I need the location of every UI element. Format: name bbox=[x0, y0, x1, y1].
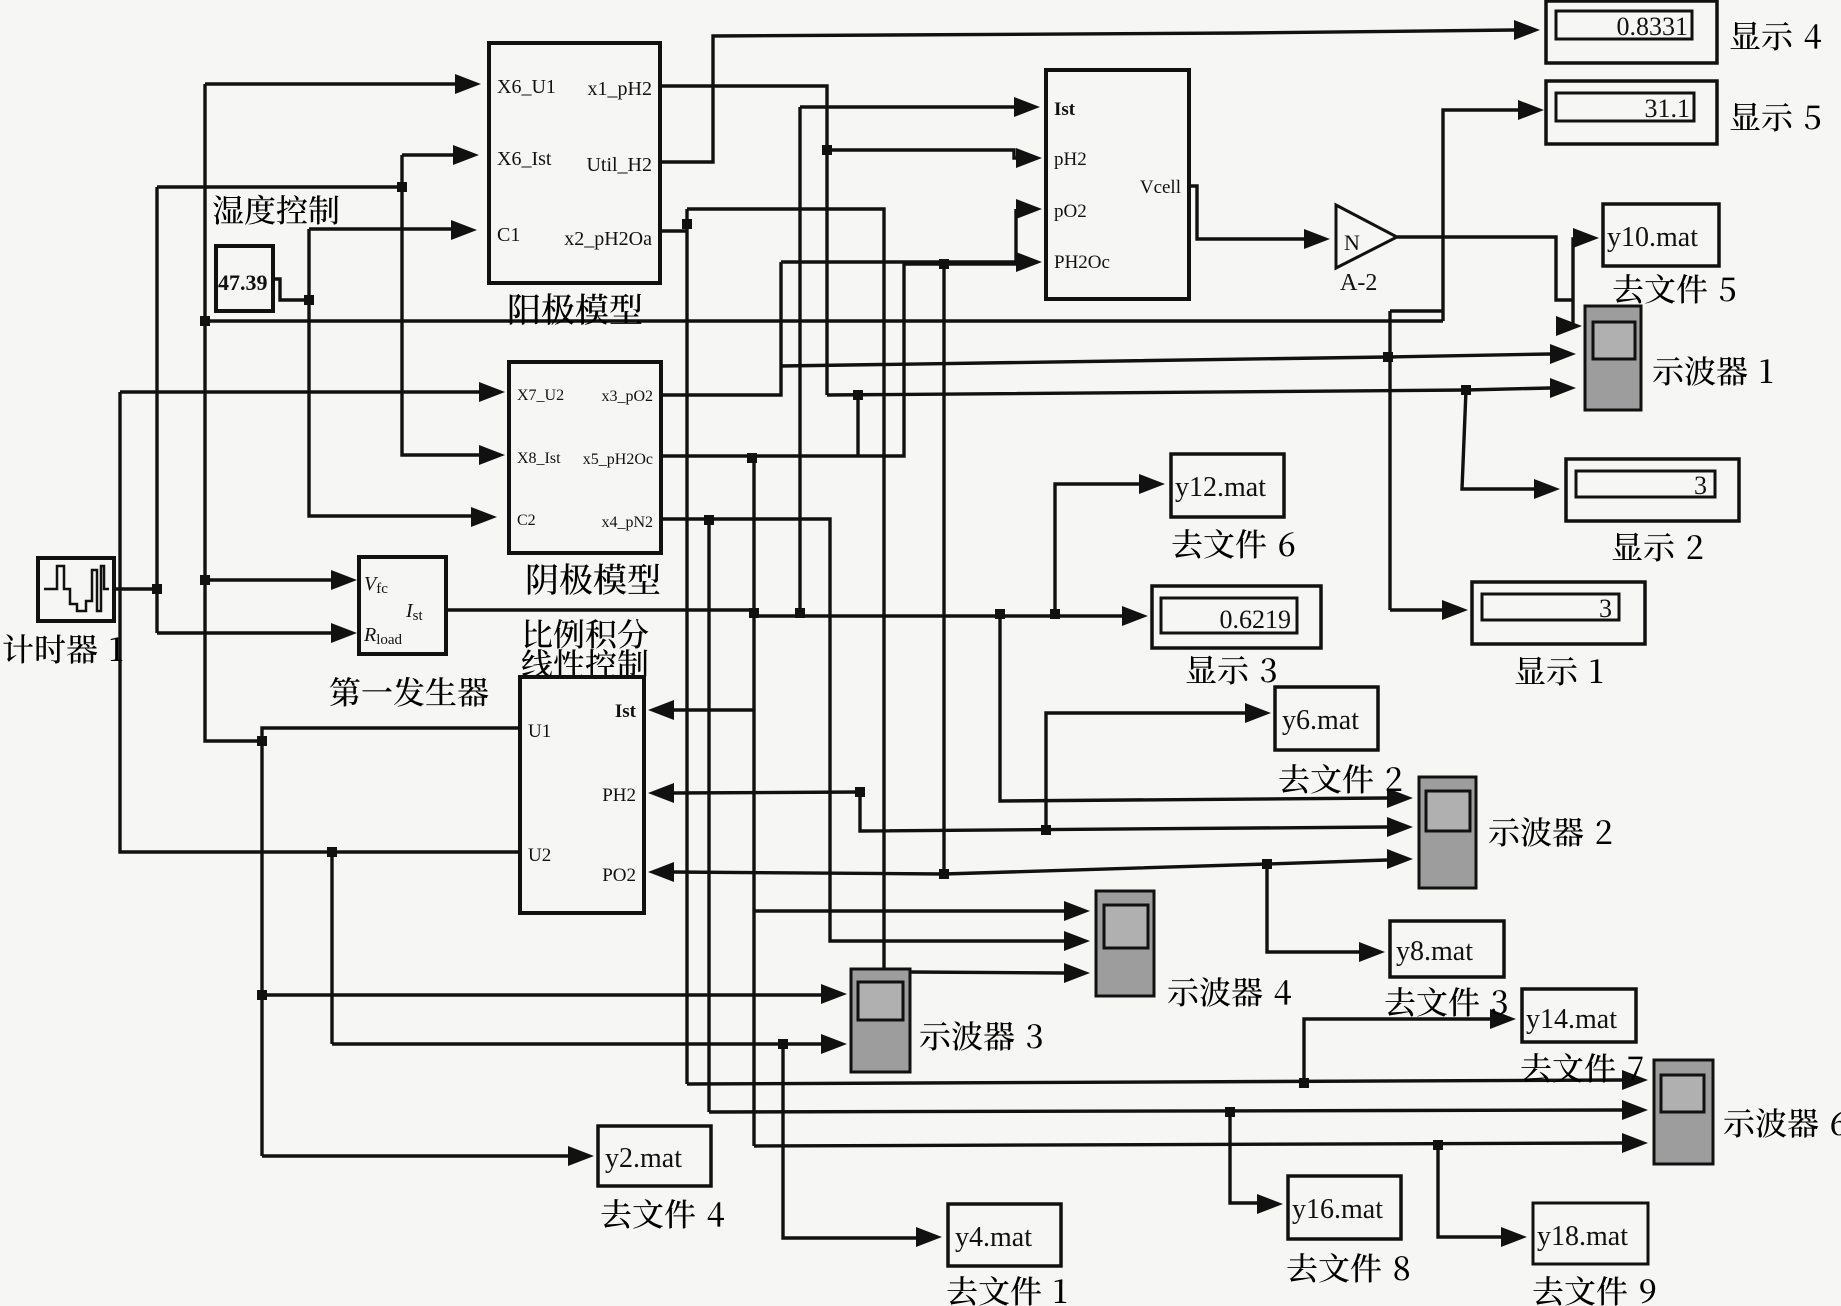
wire up to y14.mat bbox=[1304, 1019, 1490, 1083]
wire pO2 feed y=262 bbox=[781, 209, 1016, 262]
display block 显示4 bbox=[1546, 1, 1717, 63]
wire to X6_Ist input bbox=[402, 153, 453, 156]
wire net-B vertical x=205 bbox=[205, 84, 262, 741]
label scope3 bbox=[920, 1022, 950, 1051]
label to-file4 bbox=[601, 1199, 630, 1228]
wire gain output jog bbox=[1397, 237, 1573, 300]
block fuel cell stack bbox=[1046, 70, 1189, 299]
svg-text:47.39: 47.39 bbox=[218, 270, 268, 295]
wire Ist vertical x=754 bbox=[752, 456, 755, 1146]
svg-text:3: 3 bbox=[1599, 594, 1612, 623]
wire to scope2 input2 bbox=[860, 792, 1387, 831]
label humidity control bbox=[213, 195, 243, 224]
wire Util_H2 to display4 bbox=[660, 30, 1514, 162]
svg-text:y12.mat: y12.mat bbox=[1175, 472, 1266, 503]
wire to X7_U2 input bbox=[120, 390, 479, 393]
wire branch to pH2 input bbox=[827, 150, 1016, 158]
svg-text:X8_Ist: X8_Ist bbox=[517, 450, 561, 467]
svg-text:x5_pH2Oc: x5_pH2Oc bbox=[583, 451, 653, 468]
svg-text:X6_Ist: X6_Ist bbox=[497, 148, 552, 170]
wire net-A horizontal y=187 bbox=[157, 185, 402, 188]
wire x2 bottom line to scope6 input1 bbox=[687, 1080, 1622, 1084]
wire Ist vertical x=800 bbox=[798, 107, 801, 613]
wire stub x=858 bbox=[856, 395, 859, 456]
svg-text:y16.mat: y16.mat bbox=[1292, 1194, 1383, 1225]
label first generator bbox=[330, 677, 360, 707]
wire x5_pH2Oc to PH2Oc input bbox=[661, 264, 1016, 456]
label to-file1 bbox=[947, 1276, 976, 1305]
svg-text:Vcell: Vcell bbox=[1140, 177, 1181, 198]
wire net-A vertical x=157 bbox=[155, 187, 158, 633]
wire to scope6 input3 bbox=[754, 1143, 1622, 1146]
svg-text:x3_pO2: x3_pO2 bbox=[601, 388, 653, 405]
svg-text:C2: C2 bbox=[517, 512, 536, 529]
block constant 47.39 bbox=[216, 246, 273, 311]
svg-text:y2.mat: y2.mat bbox=[605, 1143, 682, 1174]
display block 显示1 bbox=[1472, 582, 1645, 644]
wire down to y4.mat bbox=[783, 1044, 916, 1238]
svg-text:U1: U1 bbox=[528, 721, 551, 742]
wire riser to y10.mat bbox=[1573, 239, 1575, 300]
display block 显示3 bbox=[1152, 586, 1321, 648]
to-file block y18.mat bbox=[1533, 1203, 1648, 1264]
wire x3 branch to scope1 input2 bbox=[781, 354, 1550, 366]
wire to scope3 input2 bbox=[332, 1042, 783, 1045]
wire x2 vertical x=687 bbox=[685, 209, 688, 1084]
wire to Vfc input bbox=[205, 578, 352, 581]
label scope6 bbox=[1724, 1109, 1754, 1138]
label timer bbox=[3, 634, 33, 663]
svg-text:Util_H2: Util_H2 bbox=[586, 154, 652, 176]
label PI linear control bbox=[525, 619, 552, 648]
block cathode model 阴极模型 bbox=[509, 362, 661, 553]
wire to scope4 input1 bbox=[754, 909, 1064, 912]
svg-text:y6.mat: y6.mat bbox=[1282, 705, 1359, 736]
svg-text:X6_U1: X6_U1 bbox=[497, 76, 556, 98]
wire generator Ist output trunk bbox=[446, 610, 1122, 616]
svg-text:U2: U2 bbox=[528, 845, 551, 866]
svg-text:x2_pH2Oa: x2_pH2Oa bbox=[564, 228, 652, 250]
label display4 bbox=[1731, 22, 1760, 49]
label display1 bbox=[1516, 657, 1545, 684]
wire to display1 bbox=[1390, 608, 1442, 611]
wire to y2.mat bbox=[262, 1154, 568, 1157]
wire U1 output to vertical x=262 bbox=[262, 728, 520, 1156]
wire display net vertical x=1390 bbox=[1388, 311, 1391, 610]
label to-file9 bbox=[1533, 1276, 1562, 1305]
wire 47.39 output bbox=[273, 279, 309, 300]
svg-text:PH2: PH2 bbox=[602, 785, 636, 806]
label scope2 bbox=[1489, 818, 1519, 847]
scope block 示波器2 bbox=[1419, 777, 1476, 888]
wire pO2 vertical x=944 bbox=[942, 262, 945, 874]
wire x2 upper branch to x=884 bbox=[687, 209, 884, 969]
scope block 示波器1 bbox=[1585, 306, 1641, 410]
scope block 示波器6 bbox=[1654, 1060, 1713, 1164]
to-file block y10.mat bbox=[1603, 204, 1719, 266]
wire up to y12.mat bbox=[1055, 484, 1139, 614]
wire to scope4 input3 bbox=[910, 972, 1064, 973]
wire timer output bbox=[114, 587, 157, 590]
svg-text:A-2: A-2 bbox=[1340, 270, 1377, 296]
display block 显示5 bbox=[1546, 81, 1717, 144]
label to-file3 bbox=[1385, 987, 1414, 1016]
label to-file5 bbox=[1613, 274, 1642, 303]
label to-file8 bbox=[1287, 1253, 1316, 1282]
svg-text:pO2: pO2 bbox=[1054, 201, 1087, 222]
wire x1 long line to scope1 input3 bbox=[827, 388, 1550, 395]
svg-text:y14.mat: y14.mat bbox=[1526, 1004, 1617, 1035]
svg-text:pH2: pH2 bbox=[1054, 149, 1087, 170]
svg-text:N: N bbox=[1344, 230, 1360, 255]
wire U2 output vertical x=120 bbox=[120, 392, 520, 852]
wire to C1 input bbox=[309, 227, 451, 230]
gain block A-2 bbox=[1336, 205, 1397, 268]
scope block 示波器3 bbox=[851, 969, 910, 1072]
svg-text:y8.mat: y8.mat bbox=[1396, 936, 1473, 967]
label cathode model bbox=[528, 564, 557, 595]
wire to Rload input bbox=[157, 631, 352, 634]
svg-text:x4_pN2: x4_pN2 bbox=[601, 514, 653, 531]
wire x4 bottom line to scope6 input2 bbox=[709, 1110, 1622, 1112]
to-file block y14.mat bbox=[1522, 989, 1636, 1042]
to-file block y16.mat bbox=[1288, 1176, 1401, 1239]
wire to scope2 input1 bbox=[1000, 614, 1387, 801]
svg-text:0.6219: 0.6219 bbox=[1220, 605, 1292, 634]
block timer 计时器1 bbox=[38, 558, 114, 621]
wire x1_pH2 output down x=827 bbox=[660, 86, 827, 395]
svg-text:Ist: Ist bbox=[615, 701, 637, 722]
label to-file2 bbox=[1279, 764, 1308, 793]
wire to scope3 input1 bbox=[262, 993, 821, 996]
wire net-B trunk y=321 bbox=[205, 319, 1443, 322]
label display5 bbox=[1731, 103, 1760, 130]
label scope4 bbox=[1168, 978, 1198, 1007]
wire to X8_Ist input bbox=[402, 453, 479, 455]
wire humidity vertical x=309 bbox=[307, 229, 310, 514]
scope block 示波器4 bbox=[1096, 891, 1154, 996]
svg-text:y10.mat: y10.mat bbox=[1607, 222, 1698, 253]
wire Vcell to gain bbox=[1189, 186, 1304, 239]
block anode model 阳极模型 bbox=[489, 43, 660, 283]
wire jog to scope1 input1 bbox=[1571, 300, 1574, 326]
svg-text:Ist: Ist bbox=[1054, 99, 1076, 120]
to-file block y6.mat bbox=[1275, 687, 1378, 750]
label scope1 bbox=[1653, 357, 1683, 386]
wire trunk up to display5 bbox=[1443, 110, 1518, 321]
svg-text:3: 3 bbox=[1694, 471, 1707, 500]
svg-text:PO2: PO2 bbox=[602, 865, 636, 886]
wire x2_pH2Oa output bbox=[661, 229, 687, 232]
svg-text:PH2Oc: PH2Oc bbox=[1054, 252, 1110, 273]
wire link y=311 bbox=[1390, 309, 1443, 312]
wire net-A vertical x=402 bbox=[400, 155, 403, 453]
to-file block y4.mat bbox=[948, 1204, 1061, 1266]
block first generator 第一发生器 bbox=[359, 557, 446, 654]
svg-text:X7_U2: X7_U2 bbox=[517, 387, 564, 404]
display block 显示2 bbox=[1566, 459, 1739, 521]
to-file block y2.mat bbox=[598, 1126, 711, 1186]
svg-text:0.8331: 0.8331 bbox=[1617, 12, 1689, 41]
wire down to y8.mat bbox=[1267, 864, 1359, 952]
svg-text:C1: C1 bbox=[497, 224, 520, 246]
wire PO2 line to scope2 input3 bbox=[672, 860, 1387, 874]
wire to PI Ist input bbox=[672, 708, 754, 711]
block PI linear controller bbox=[520, 677, 644, 913]
wire x3_pO2 output up x=781 bbox=[661, 262, 781, 395]
wire x4_pN2 to scope4 input2 bbox=[661, 519, 1064, 941]
wire to X6_U1 input bbox=[205, 82, 455, 85]
to-file block y8.mat bbox=[1390, 921, 1504, 977]
label anode model bbox=[510, 294, 539, 325]
wire net-C vertical x=332 bbox=[330, 852, 333, 1044]
label display2 bbox=[1613, 533, 1642, 560]
wire up to y6.mat bbox=[1046, 713, 1245, 830]
wire down to display2 bbox=[1462, 390, 1534, 489]
wire down to y18.mat bbox=[1438, 1145, 1501, 1237]
wire x4 vertical x=709 bbox=[707, 520, 710, 1112]
svg-text:x1_pH2: x1_pH2 bbox=[588, 78, 652, 100]
label display3 bbox=[1187, 656, 1216, 683]
to-file block y12.mat bbox=[1171, 454, 1284, 517]
svg-text:y4.mat: y4.mat bbox=[955, 1222, 1032, 1253]
label to-file6 bbox=[1172, 529, 1201, 558]
wire PH2 input line bbox=[672, 792, 860, 793]
wire to C2 input bbox=[309, 514, 471, 516]
svg-text:31.1: 31.1 bbox=[1645, 94, 1691, 123]
svg-text:y18.mat: y18.mat bbox=[1537, 1221, 1628, 1252]
wire down to y16.mat bbox=[1230, 1112, 1257, 1203]
wire to fuel cell Ist input bbox=[800, 105, 1014, 108]
label to-file7 bbox=[1521, 1053, 1550, 1082]
